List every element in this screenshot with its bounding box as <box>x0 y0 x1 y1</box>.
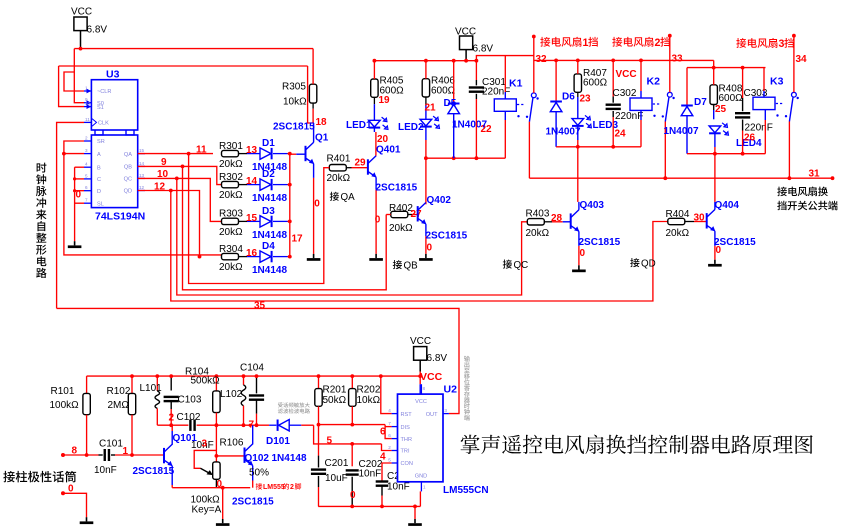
svg-text:21: 21 <box>425 103 437 114</box>
svg-text:R102: R102 <box>107 386 131 397</box>
wire S1 net rail (y=66) <box>59 65 308 67</box>
svg-text:18: 18 <box>316 117 328 128</box>
svg-text:TRI: TRI <box>401 449 410 455</box>
text to LM555 pin2 red <box>256 483 263 490</box>
svg-text:29: 29 <box>355 158 367 169</box>
wire diode common net 17 <box>289 154 291 257</box>
capacitor C303 220nF <box>742 68 744 98</box>
svg-text:1N4148: 1N4148 <box>252 230 287 241</box>
ground Q401 <box>375 254 377 258</box>
svg-text:7: 7 <box>388 421 391 426</box>
svg-text:Q102: Q102 <box>245 453 270 464</box>
svg-text:D5: D5 <box>444 98 457 109</box>
resistor R202 10k <box>351 376 353 389</box>
transistor Q401 2SC1815 <box>367 159 369 174</box>
svg-text:20kΩ: 20kΩ <box>666 228 690 239</box>
wire Q403 collector riser <box>577 147 579 202</box>
svg-text:5: 5 <box>327 436 333 447</box>
svg-text:3: 3 <box>779 38 785 50</box>
svg-text:6.8V: 6.8V <box>473 44 494 55</box>
svg-text:CON: CON <box>401 461 413 467</box>
resistor R405 600 <box>371 79 378 97</box>
wire net 35 to 555 OUT <box>57 308 459 413</box>
ground Q404 <box>714 260 716 264</box>
wire R106 ground drop <box>222 488 224 519</box>
svg-text:LM555: LM555 <box>263 484 285 491</box>
svg-text:D6: D6 <box>562 92 575 103</box>
capacitor C101 10nF <box>99 454 103 456</box>
svg-text:74LS194N: 74LS194N <box>95 211 145 223</box>
svg-text:R201: R201 <box>323 385 347 396</box>
wire VCC drop to U3 S0 <box>74 49 84 103</box>
svg-text:1N4007: 1N4007 <box>452 119 487 130</box>
svg-text:Q1: Q1 <box>315 133 329 144</box>
transistor Q101 2SC1815 <box>163 448 165 463</box>
wire net 7 to net 5 <box>314 425 382 444</box>
svg-text:11: 11 <box>85 117 90 122</box>
svg-text:L102: L102 <box>220 389 243 400</box>
capacitor C301 220nF <box>475 61 477 80</box>
svg-text:10nF: 10nF <box>387 482 410 493</box>
text control QC <box>503 260 512 269</box>
svg-text:6.8V: 6.8V <box>87 25 108 36</box>
svg-text:20kΩ: 20kΩ <box>219 262 243 273</box>
svg-text:15: 15 <box>246 213 258 224</box>
svg-text:20: 20 <box>377 134 389 145</box>
wire QA to R301 <box>138 153 213 155</box>
wire net 24 row <box>556 146 641 148</box>
wire K3 arm to net 31 <box>788 122 790 179</box>
wire S1 drop <box>59 66 84 107</box>
U3 lower left pins SR A B C D SL <box>84 140 91 142</box>
svg-text:220nF: 220nF <box>482 87 510 98</box>
svg-text:SR: SR <box>97 139 105 145</box>
svg-text:5: 5 <box>85 173 88 178</box>
svg-text:2: 2 <box>169 413 175 424</box>
svg-text:31: 31 <box>809 169 821 180</box>
svg-text:27: 27 <box>411 209 423 220</box>
svg-text:1: 1 <box>423 485 426 490</box>
svg-text:20kΩ: 20kΩ <box>389 223 413 234</box>
svg-text:LM555CN: LM555CN <box>443 485 489 496</box>
svg-text:12: 12 <box>154 181 166 192</box>
resistor R301 20k and diode D1 <box>222 150 239 156</box>
svg-text:600Ω: 600Ω <box>583 78 608 89</box>
svg-text:10kΩ: 10kΩ <box>283 97 307 108</box>
svg-text:QB: QB <box>404 260 419 271</box>
svg-text:2: 2 <box>388 445 391 450</box>
inductor L101 <box>156 376 158 391</box>
timer U2 LM555CN body <box>398 394 444 482</box>
svg-text:CLK: CLK <box>98 121 109 127</box>
svg-text:K3: K3 <box>770 76 784 88</box>
svg-text:D: D <box>97 189 101 195</box>
potentiometer R106 100k <box>213 462 220 479</box>
svg-text:R403: R403 <box>526 209 550 220</box>
svg-text:8: 8 <box>72 446 78 457</box>
svg-text:R106: R106 <box>220 438 244 449</box>
text fan gear 2 <box>612 37 622 47</box>
svg-text:20kΩ: 20kΩ <box>219 159 243 170</box>
svg-text:U3: U3 <box>106 69 120 81</box>
svg-text:500kΩ: 500kΩ <box>191 375 221 386</box>
svg-text:C103: C103 <box>178 395 202 406</box>
ground Q403 <box>578 265 580 269</box>
op-amp U3 74LS194N body <box>91 80 137 130</box>
svg-text:5: 5 <box>388 458 391 463</box>
svg-text:600Ω: 600Ω <box>719 93 744 104</box>
text electret microphone <box>3 471 15 482</box>
svg-text:7: 7 <box>249 420 255 431</box>
wire mic ground stub <box>63 493 87 517</box>
svg-text:16: 16 <box>246 248 258 259</box>
resistor R303 20k and diode D3 <box>222 218 239 224</box>
svg-text:D2: D2 <box>262 169 275 180</box>
wire QC jog to R303 <box>138 178 222 221</box>
svg-text:8: 8 <box>423 386 426 391</box>
svg-text:VCC: VCC <box>420 371 443 383</box>
wire LED3 to net 24 <box>577 126 579 140</box>
svg-text:Key=A: Key=A <box>192 505 222 516</box>
svg-text:4: 4 <box>388 408 391 413</box>
svg-text:220nF: 220nF <box>615 111 643 122</box>
wire CON to C203 <box>382 463 392 481</box>
svg-text:1N4148: 1N4148 <box>272 453 307 464</box>
capacitor C201 10uF <box>318 425 320 456</box>
K1 switch contact <box>517 104 525 106</box>
svg-text:B: B <box>97 165 101 171</box>
svg-text:1: 1 <box>583 37 589 49</box>
wire SR-A feedback from QD row <box>64 141 222 255</box>
diode D101 1N4148 <box>269 424 276 426</box>
svg-text:20kΩ: 20kΩ <box>327 173 351 184</box>
capacitor C104 <box>256 376 258 393</box>
svg-text:1N4007: 1N4007 <box>546 126 581 137</box>
wire net 22 row <box>426 157 505 159</box>
svg-text:Q401: Q401 <box>376 145 401 156</box>
svg-text:1N4148: 1N4148 <box>252 265 287 276</box>
svg-text:6.8V: 6.8V <box>427 353 448 364</box>
wire mic input net 8 <box>63 454 99 456</box>
svg-text:QA: QA <box>341 192 356 203</box>
text output note gray vertical <box>464 356 470 362</box>
svg-text:30: 30 <box>694 213 706 224</box>
svg-text:50kΩ: 50kΩ <box>323 395 347 406</box>
resistor R104 500k <box>215 376 217 391</box>
svg-text:RST: RST <box>401 412 413 418</box>
svg-text:10kΩ: 10kΩ <box>357 395 381 406</box>
svg-text:24: 24 <box>615 129 627 140</box>
diode D6 1N4007 <box>555 60 557 101</box>
wire S1 net to Q1 collector <box>308 66 314 123</box>
wire VCC rail 1 (y=48.6 to R305) <box>74 48 313 50</box>
wire QD feedback vertical <box>171 191 668 302</box>
text filter note gray <box>278 402 283 407</box>
svg-text:20kΩ: 20kΩ <box>526 228 550 239</box>
svg-text:2: 2 <box>85 136 88 141</box>
svg-text:2MΩ: 2MΩ <box>108 400 130 411</box>
svg-text:11: 11 <box>196 145 207 156</box>
svg-text:QC: QC <box>124 177 132 183</box>
svg-text:3: 3 <box>202 439 208 450</box>
svg-text:0: 0 <box>76 190 82 201</box>
svg-text:VCC: VCC <box>415 399 427 405</box>
svg-text:0: 0 <box>427 243 433 254</box>
svg-text:0: 0 <box>375 215 381 226</box>
svg-text:0: 0 <box>580 248 586 259</box>
capacitor C202 10nF <box>351 444 353 466</box>
svg-text:9: 9 <box>161 157 167 168</box>
wire VCC rail mid (y=60.7) <box>374 60 476 62</box>
resistor R201 50k <box>318 376 320 389</box>
svg-text:GND: GND <box>415 474 427 480</box>
svg-text:1: 1 <box>123 446 129 457</box>
svg-text:S1: S1 <box>97 105 104 111</box>
svg-text:C102: C102 <box>177 412 201 423</box>
wire QC feedback vertical <box>177 178 528 295</box>
svg-text:2SC1815: 2SC1815 <box>273 122 315 133</box>
svg-text:23: 23 <box>580 94 592 105</box>
relay K1 coil <box>494 99 516 111</box>
resistor R404 20k <box>668 218 685 224</box>
wire loop to U3 ~CLR <box>64 72 84 91</box>
wire RST riser <box>381 376 392 414</box>
svg-text:33: 33 <box>672 54 684 65</box>
text fan gear 1 <box>540 37 550 47</box>
resistor R407 600 <box>574 74 581 92</box>
svg-text:U2: U2 <box>444 384 458 396</box>
svg-text:R101: R101 <box>51 386 75 397</box>
svg-text:D101: D101 <box>266 436 290 447</box>
wire VCC rail right (y=60.4) <box>534 59 714 61</box>
svg-text:10: 10 <box>157 169 169 180</box>
svg-text:17: 17 <box>292 234 304 245</box>
U3 output pins QA QB QC QD <box>138 153 145 155</box>
wire net 5 jog to TRI <box>382 444 392 451</box>
wire net 6 row to DIS THR <box>319 424 386 426</box>
capacitor C203 10nF <box>376 480 389 482</box>
svg-text:2SC1815: 2SC1815 <box>232 497 274 508</box>
svg-text:C104: C104 <box>240 363 264 374</box>
resistor R302 20k and diode D2 <box>222 181 239 187</box>
svg-text:THR: THR <box>401 437 413 443</box>
transistor Q404 2SC1815 <box>706 213 708 228</box>
wire ground drop 555 <box>414 506 416 519</box>
ground Q1 <box>313 254 315 258</box>
svg-text:19: 19 <box>379 95 391 106</box>
ground U3 inputs <box>74 241 76 245</box>
svg-text:A: A <box>97 152 101 158</box>
K2 switch contact <box>653 103 660 105</box>
wire net 31 common <box>529 177 832 179</box>
svg-text:R304: R304 <box>219 244 243 255</box>
LED LED1 <box>369 120 381 127</box>
svg-text:DIS: DIS <box>401 425 411 431</box>
svg-text:10nF: 10nF <box>359 469 382 480</box>
relay K3 coil <box>753 97 775 109</box>
ground mic <box>86 517 88 521</box>
svg-text:32: 32 <box>536 54 548 65</box>
svg-text:LED1: LED1 <box>346 120 372 131</box>
diode D7 1N4007 <box>686 68 688 106</box>
svg-text:50%: 50% <box>249 468 269 479</box>
text control QB <box>393 260 402 269</box>
resistor R402 20k <box>391 211 408 217</box>
svg-text:C: C <box>97 177 101 183</box>
svg-text:QD: QD <box>124 189 132 195</box>
svg-text:Q404: Q404 <box>715 200 740 211</box>
wire K1 arm to net 31 <box>528 122 530 178</box>
svg-text:28: 28 <box>551 213 563 224</box>
wire VCC to pin8 <box>419 372 421 385</box>
svg-text:1N4148: 1N4148 <box>252 193 287 204</box>
svg-text:C201: C201 <box>325 458 349 469</box>
svg-text:QB: QB <box>124 165 132 171</box>
wire fan terminal 1 <box>533 37 535 93</box>
transistor Q1 2SC1815 <box>290 153 297 155</box>
resistor R408 600 <box>710 85 717 105</box>
svg-text:R401: R401 <box>327 154 351 165</box>
text control QA <box>330 192 339 201</box>
resistor R305 10k <box>309 84 316 103</box>
svg-text:20kΩ: 20kΩ <box>219 227 243 238</box>
svg-text:R202: R202 <box>357 385 381 396</box>
relay K2 coil <box>630 98 652 110</box>
ground 555 <box>414 519 416 523</box>
LED LED4 <box>709 126 721 133</box>
text control QD <box>630 258 639 267</box>
text clock source note (vertical) <box>37 163 47 173</box>
svg-text:D4: D4 <box>262 241 275 252</box>
svg-text:Q403: Q403 <box>580 200 605 211</box>
svg-text:0: 0 <box>716 245 722 256</box>
svg-text:R303: R303 <box>219 209 243 220</box>
svg-text:2: 2 <box>655 37 661 49</box>
svg-text:14: 14 <box>139 161 145 166</box>
svg-text:100kΩ: 100kΩ <box>50 400 80 411</box>
svg-text:10nF: 10nF <box>94 465 117 476</box>
svg-text:2: 2 <box>290 484 294 491</box>
svg-text:2SC1815: 2SC1815 <box>376 182 418 193</box>
svg-text:R305: R305 <box>282 82 306 93</box>
wire QA feedback vertical <box>189 154 324 284</box>
resistor R406 600 <box>422 79 429 97</box>
svg-text:2SC1815: 2SC1815 <box>579 237 621 248</box>
svg-text:14: 14 <box>246 176 258 187</box>
wire fan terminal 3 <box>793 36 795 93</box>
wire LED1 to Q401 collector <box>373 128 375 132</box>
svg-text:0: 0 <box>314 199 320 210</box>
wire fan terminal 2 <box>669 36 671 93</box>
svg-text:12: 12 <box>139 185 145 190</box>
text fan gear 3 <box>736 38 746 48</box>
inductor L102 <box>243 376 245 385</box>
svg-text:34: 34 <box>796 54 808 65</box>
svg-text:~CLR: ~CLR <box>97 89 111 95</box>
svg-text:13: 13 <box>139 173 145 178</box>
svg-text:220nF: 220nF <box>745 123 773 134</box>
wire B C D SL common to ground <box>74 167 76 241</box>
svg-text:3: 3 <box>85 148 88 153</box>
svg-text:K1: K1 <box>509 78 523 90</box>
svg-text:6: 6 <box>388 433 391 438</box>
svg-text:C101: C101 <box>99 439 123 450</box>
svg-text:VCC: VCC <box>616 69 637 80</box>
capacitor C302 220nF <box>612 60 614 96</box>
resistor R101 100k <box>86 376 88 393</box>
wire net 35 riser at U3 CLK <box>57 122 84 308</box>
svg-text:0: 0 <box>68 484 74 495</box>
svg-text:Q402: Q402 <box>427 195 452 206</box>
ground R106 <box>222 519 224 523</box>
svg-text:QC: QC <box>514 260 529 271</box>
svg-text:R404: R404 <box>666 209 690 220</box>
svg-text:D1: D1 <box>262 138 275 149</box>
svg-text:SL: SL <box>97 201 104 207</box>
svg-text:2SC1815: 2SC1815 <box>426 231 468 242</box>
transistor Q402 2SC1815 <box>417 206 419 221</box>
text common terminal note <box>777 187 787 197</box>
wire QD jog to R304 row <box>138 191 200 257</box>
svg-text:D7: D7 <box>694 97 707 108</box>
text schematic title <box>461 435 480 454</box>
svg-text:VCC: VCC <box>410 336 431 347</box>
svg-text:26: 26 <box>744 133 756 144</box>
svg-text:0: 0 <box>350 490 356 501</box>
svg-text:35: 35 <box>254 300 266 311</box>
svg-text:20kΩ: 20kΩ <box>219 190 243 201</box>
svg-text:K2: K2 <box>647 76 661 88</box>
svg-text:OUT: OUT <box>426 412 438 418</box>
transistor Q403 2SC1815 <box>563 221 571 223</box>
wire net 26 row <box>687 153 765 155</box>
svg-text:25: 25 <box>715 104 727 115</box>
wire rail K3 segment (y=67.6) <box>687 67 766 69</box>
LED LED2 <box>420 119 432 126</box>
svg-text:3: 3 <box>444 408 447 413</box>
svg-text:4: 4 <box>380 452 386 463</box>
svg-text:15: 15 <box>139 148 145 153</box>
resistor R102 2M <box>131 376 133 393</box>
svg-text:R301: R301 <box>219 141 243 152</box>
svg-text:1N4007: 1N4007 <box>664 126 699 137</box>
U2 pins <box>392 413 398 415</box>
U3 upper pins ~CLR S0 S1 CLK <box>84 90 91 92</box>
svg-text:600Ω: 600Ω <box>431 86 456 97</box>
wire 555 ground rail <box>318 505 420 507</box>
LED LED3 <box>572 119 584 126</box>
capacitor C102 10nF <box>189 420 191 431</box>
svg-text:VCC: VCC <box>71 7 92 18</box>
svg-text:10uF: 10uF <box>325 473 348 484</box>
svg-text:6: 6 <box>85 185 88 190</box>
capacitor C103 <box>170 376 172 390</box>
wire QB feedback vertical <box>183 166 387 289</box>
wire net 2 row <box>157 424 188 426</box>
wire emitter row <box>172 487 250 489</box>
wire K2 arm to net 31 <box>664 122 666 179</box>
wire Q404 collector riser <box>714 154 716 202</box>
wire LED2 to net22 and Q402 collector <box>425 127 427 140</box>
svg-text:Q101: Q101 <box>173 433 198 444</box>
K3 switch contact <box>776 103 783 105</box>
svg-text:D3: D3 <box>262 206 275 217</box>
resistor R401 20k <box>329 165 346 171</box>
wire QB jog to R302 <box>138 166 222 184</box>
resistor R304 20k and diode D4 <box>222 253 239 259</box>
ground Q402 <box>425 254 427 258</box>
svg-text:7: 7 <box>85 198 88 203</box>
